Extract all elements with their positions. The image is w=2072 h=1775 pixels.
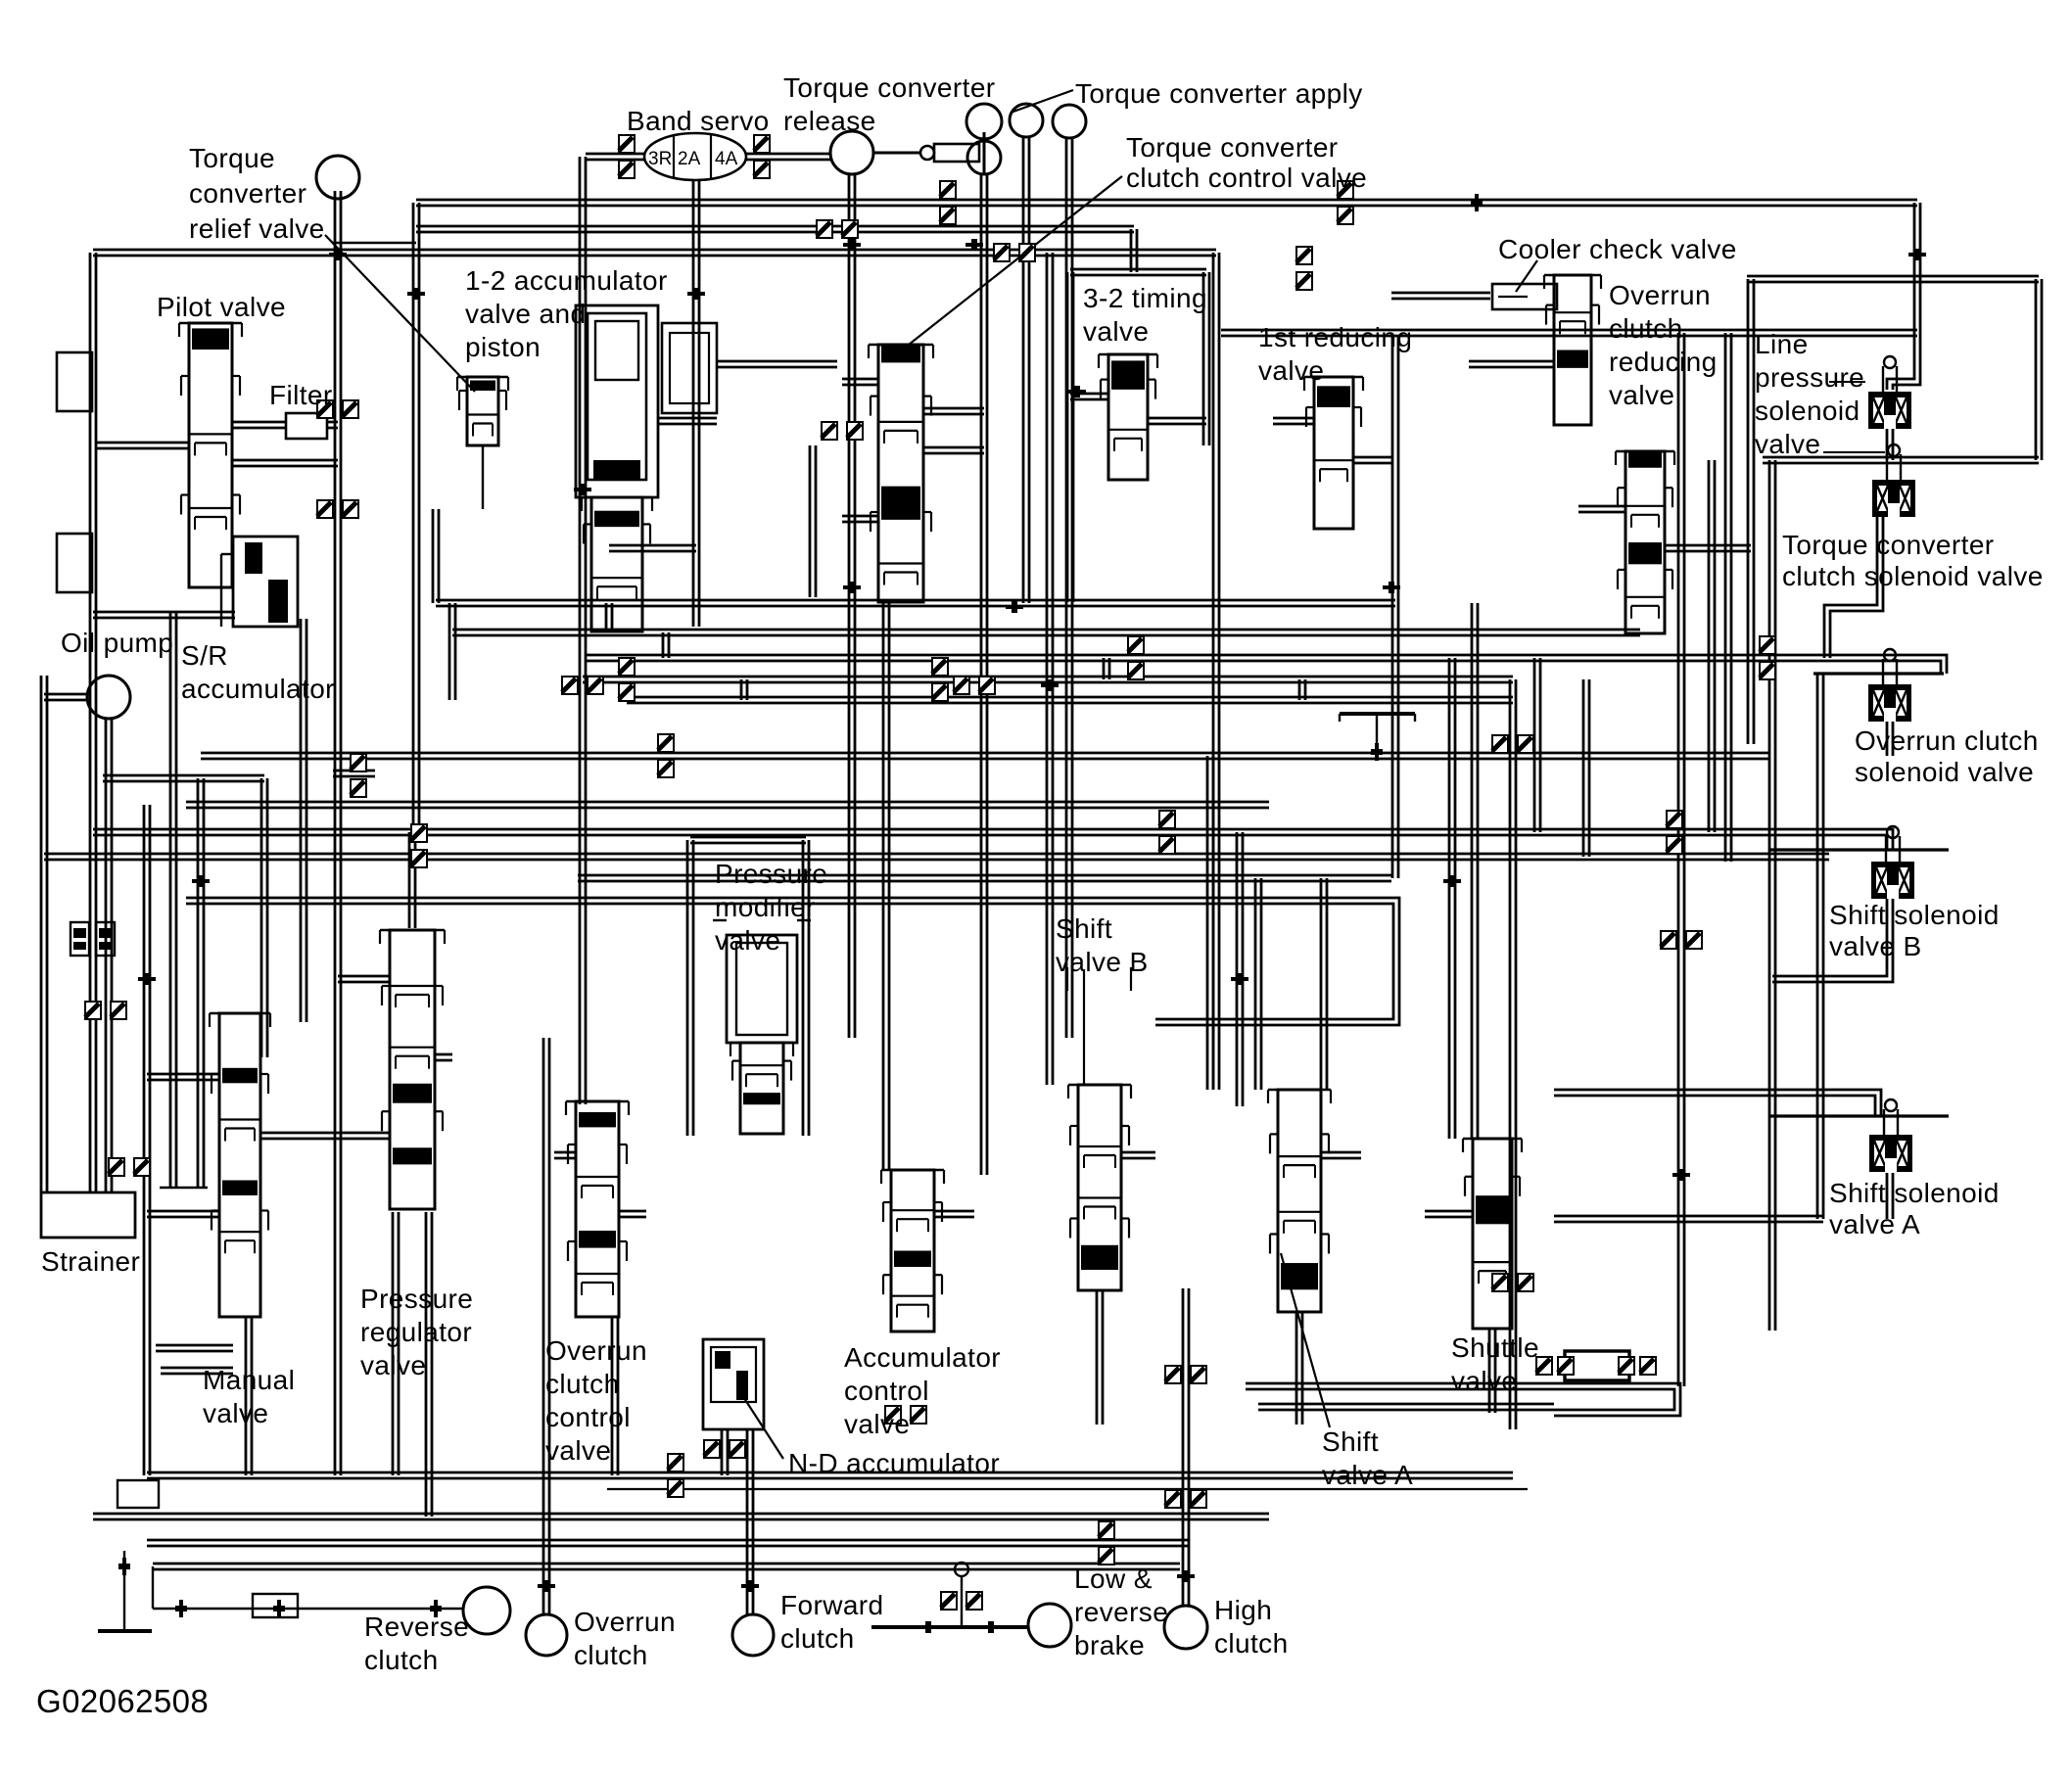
svg-text:clutch: clutch	[780, 1623, 855, 1654]
svg-text:release: release	[783, 106, 876, 136]
svg-text:Torque converter apply: Torque converter apply	[1075, 78, 1363, 109]
svg-text:1-2 accumulator: 1-2 accumulator	[465, 265, 668, 296]
svg-text:valve: valve	[715, 925, 780, 956]
svg-text:3-2 timing: 3-2 timing	[1083, 283, 1207, 313]
svg-text:valve: valve	[1258, 355, 1324, 386]
svg-text:Torque converter: Torque converter	[1126, 132, 1339, 163]
svg-text:Overrun clutch: Overrun clutch	[1855, 725, 2039, 756]
svg-text:pressure: pressure	[1755, 362, 1864, 393]
svg-text:clutch: clutch	[574, 1640, 648, 1670]
svg-text:G02062508: G02062508	[36, 1683, 209, 1719]
svg-text:control: control	[545, 1402, 631, 1432]
svg-text:solenoid valve: solenoid valve	[1855, 757, 2034, 787]
svg-text:Filter: Filter	[269, 380, 333, 410]
svg-text:valve: valve	[1609, 380, 1674, 410]
svg-text:regulator: regulator	[360, 1317, 472, 1347]
svg-text:Pilot valve: Pilot valve	[157, 292, 286, 322]
svg-text:Accumulator: Accumulator	[844, 1342, 1001, 1373]
svg-text:Torque converter: Torque converter	[783, 72, 996, 103]
svg-text:Shift solenoid: Shift solenoid	[1829, 900, 2000, 930]
svg-text:4A: 4A	[715, 149, 738, 169]
svg-text:Band servo: Band servo	[627, 106, 770, 136]
svg-text:brake: brake	[1074, 1630, 1145, 1660]
svg-text:Cooler check valve: Cooler check valve	[1498, 234, 1737, 264]
svg-text:Shift solenoid: Shift solenoid	[1829, 1178, 2000, 1208]
svg-text:valve A: valve A	[1322, 1460, 1413, 1490]
svg-text:Forward: Forward	[780, 1590, 884, 1620]
svg-text:clutch solenoid valve: clutch solenoid valve	[1782, 561, 2044, 591]
svg-text:Torque: Torque	[189, 143, 275, 173]
svg-text:clutch: clutch	[1609, 313, 1683, 344]
svg-text:clutch: clutch	[545, 1369, 620, 1399]
svg-text:Oil pump: Oil pump	[61, 628, 173, 658]
svg-text:Overrun: Overrun	[574, 1607, 676, 1637]
svg-text:Shuttle: Shuttle	[1451, 1332, 1539, 1363]
svg-text:Reverse: Reverse	[364, 1612, 469, 1642]
svg-text:Pressure: Pressure	[360, 1284, 473, 1314]
svg-text:valve: valve	[360, 1350, 426, 1380]
svg-text:valve B: valve B	[1056, 947, 1149, 977]
svg-text:modifier: modifier	[715, 892, 816, 922]
svg-text:N-D accumulator: N-D accumulator	[788, 1448, 1000, 1478]
svg-text:3R: 3R	[648, 149, 672, 169]
svg-text:Shift: Shift	[1056, 913, 1112, 944]
svg-text:reverse: reverse	[1074, 1597, 1168, 1627]
svg-text:Shift: Shift	[1322, 1426, 1379, 1457]
svg-text:Overrun: Overrun	[1609, 280, 1711, 310]
svg-text:accumulator: accumulator	[181, 674, 335, 704]
svg-text:clutch control valve: clutch control valve	[1126, 163, 1367, 193]
svg-text:valve: valve	[545, 1435, 611, 1466]
svg-text:valve A: valve A	[1829, 1209, 1920, 1239]
svg-text:valve: valve	[1083, 316, 1149, 347]
svg-text:1st reducing: 1st reducing	[1258, 322, 1412, 352]
svg-text:Torque converter: Torque converter	[1782, 530, 1995, 560]
svg-text:Pressure: Pressure	[715, 859, 827, 889]
svg-text:High: High	[1214, 1595, 1272, 1625]
svg-text:Manual: Manual	[203, 1365, 295, 1395]
svg-text:control: control	[844, 1376, 929, 1406]
svg-text:solenoid: solenoid	[1755, 396, 1860, 426]
svg-text:S/R: S/R	[181, 640, 228, 671]
svg-text:Strainer: Strainer	[41, 1246, 140, 1277]
svg-text:2A: 2A	[678, 149, 701, 169]
svg-text:piston: piston	[465, 332, 541, 362]
svg-text:clutch: clutch	[1214, 1628, 1289, 1658]
svg-text:valve B: valve B	[1829, 931, 1922, 961]
svg-text:clutch: clutch	[364, 1645, 439, 1675]
svg-text:converter: converter	[189, 178, 306, 209]
svg-text:Low &: Low &	[1074, 1564, 1153, 1594]
svg-text:valve: valve	[1755, 429, 1820, 459]
svg-text:valve and: valve and	[465, 299, 586, 329]
svg-text:Line: Line	[1755, 329, 1809, 359]
svg-text:valve: valve	[844, 1409, 910, 1439]
svg-text:reducing: reducing	[1609, 347, 1718, 377]
svg-text:Overrun: Overrun	[545, 1335, 647, 1366]
svg-text:valve: valve	[1451, 1366, 1517, 1396]
svg-text:valve: valve	[203, 1398, 268, 1428]
svg-text:relief valve: relief valve	[189, 213, 325, 244]
